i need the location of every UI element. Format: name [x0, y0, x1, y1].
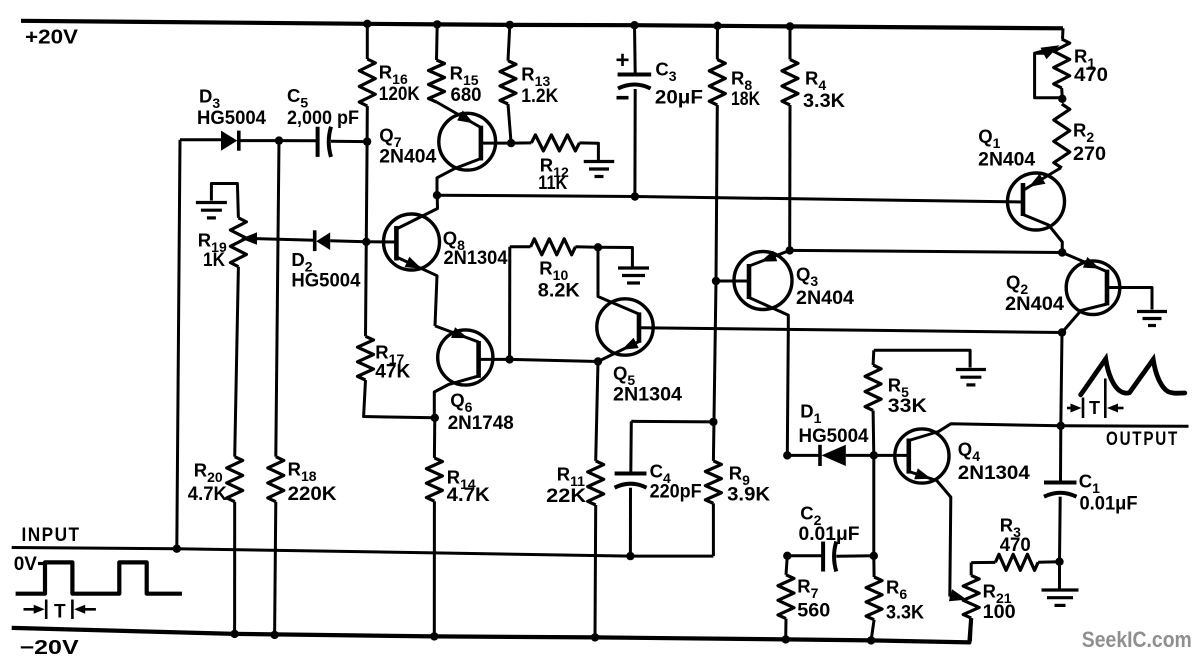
resistor R3 470 — [971, 561, 995, 564]
ground at R12 — [584, 160, 615, 163]
Q7 collector wire — [437, 159, 481, 196]
svg-text:470: 470 — [1074, 65, 1108, 86]
Q6 collector wire from Q8 emitter with arrow — [435, 326, 479, 342]
resistor R20 — [227, 457, 243, 502]
node base-line/Q7 collector — [433, 191, 441, 199]
wire R7 bottom to -20V rail — [784, 619, 787, 640]
node Q3 column/C2 — [783, 552, 791, 560]
wire R13 top — [508, 25, 510, 61]
node R3/C1/ground — [1055, 558, 1063, 566]
node R8/Q3 base — [712, 277, 720, 285]
Q1 collector wire — [1023, 215, 1062, 253]
Q4 wiper arrow into R21 — [950, 597, 956, 599]
+20V supply rail — [21, 21, 1063, 29]
svg-text:4.7K: 4.7K — [447, 485, 490, 506]
Q3 emitter wire with PNP arrow — [751, 250, 790, 265]
R1 wiper arrow — [1035, 50, 1048, 54]
svg-text:100: 100 — [983, 602, 1016, 623]
wire base line: Q7 collector to C3 bottom to Q1 base — [437, 195, 1023, 202]
ground at R5 — [956, 368, 986, 371]
Q5 emitter wire with NPN arrow — [598, 342, 639, 362]
wire R16 top — [366, 24, 369, 59]
svg-text:33K: 33K — [888, 396, 927, 417]
node R11/-20V rail — [591, 633, 599, 641]
wire C5 node down to D2 node and R17 — [366, 142, 368, 337]
node R10/ground/Q5 collector — [594, 243, 602, 251]
node D3 column/input line — [173, 545, 181, 553]
svg-text:2N404: 2N404 — [379, 147, 436, 168]
Q8 emitter wire with NPN arrow — [396, 257, 437, 326]
wire D3 anode column down to input line — [177, 140, 180, 549]
resistor R16 — [359, 59, 375, 106]
capacitor C2 0.01uF — [787, 554, 823, 557]
resistor R7 560 — [786, 556, 787, 575]
wire R18 column — [276, 141, 279, 457]
svg-text:220pF: 220pF — [650, 481, 702, 502]
wire R20 bottom to -20V rail — [233, 502, 236, 634]
ground at C1 — [1042, 588, 1079, 591]
node: rail to R16 — [363, 20, 371, 28]
wire R17 bottom to Q6/R14 node — [364, 380, 435, 418]
wire C3 bottom — [633, 89, 636, 197]
wire R14 bottom to -20V rail — [433, 501, 436, 636]
ground at Q2 base — [1137, 310, 1167, 313]
node Q5 emitter/R11 — [594, 357, 602, 365]
wire R5 top to ground — [874, 350, 970, 367]
svg-text:8.2K: 8.2K — [538, 281, 580, 302]
svg-text:22K: 22K — [546, 486, 586, 507]
output period marker T — [1082, 398, 1085, 419]
node Q2 collector / output column — [1058, 328, 1066, 336]
wire R4 top — [789, 26, 792, 59]
svg-text:2N1748: 2N1748 — [448, 413, 514, 434]
potentiometer R21 100 — [963, 575, 979, 618]
node R18/-20V rail — [270, 631, 278, 639]
svg-text:SeekIC.com: SeekIC.com — [1082, 627, 1192, 652]
transistor Q7 2N404 — [439, 113, 496, 170]
wire R8 bottom to Q3 base node — [716, 105, 717, 281]
transistor Q6 2N1748 — [438, 330, 493, 385]
Q8 base wire from D2 node — [366, 240, 396, 243]
transistor Q4 2N1304 — [895, 429, 949, 483]
node R4/Q3 emitter — [786, 246, 794, 254]
svg-text:T: T — [1089, 398, 1100, 418]
node R20/-20V rail — [230, 630, 238, 638]
node D3/C5/R18 — [275, 136, 283, 144]
resistor R5 33K — [872, 350, 876, 365]
node: rail to R4 — [786, 22, 794, 30]
node C4 top/R9 — [709, 418, 717, 426]
rheostat R1 — [1061, 28, 1065, 39]
wire C1 ground stem — [1058, 562, 1061, 589]
wire R10 node to ground — [598, 247, 632, 266]
svg-text:220K: 220K — [288, 484, 337, 505]
svg-text:2,000 pF: 2,000 pF — [287, 108, 359, 129]
wire R9 top — [713, 281, 716, 461]
wire C3 top — [633, 25, 637, 73]
svg-text:1.2K: 1.2K — [521, 86, 558, 107]
svg-text:0.01μF: 0.01μF — [799, 524, 860, 545]
Q2 emitter arrow (PNP) — [1083, 257, 1100, 269]
Q1 emitter arrow (PNP) — [1029, 174, 1046, 187]
Q7 emitter arrow (PNP) — [457, 111, 474, 124]
resistor R15 — [429, 60, 445, 102]
resistor R2 — [1054, 104, 1070, 168]
R1 wiper loop — [1035, 53, 1063, 97]
Q8 collector wire up to base-line node — [396, 195, 437, 229]
svg-text:4.7K: 4.7K — [188, 484, 227, 505]
Q7 emitter wire from R15 — [437, 102, 481, 128]
wire R8 top — [716, 26, 719, 60]
svg-text:680: 680 — [451, 85, 482, 106]
svg-text:1K: 1K — [203, 250, 225, 271]
Q2 base wire to ground — [1107, 288, 1152, 310]
node base-line/C3 — [631, 192, 639, 200]
svg-text:3.3K: 3.3K — [803, 91, 845, 112]
potentiometer R19 1K — [230, 218, 246, 267]
node D2/Q8 base/R17 column — [362, 238, 370, 246]
svg-text:120K: 120K — [379, 84, 420, 105]
node Q6 base/R10 leg — [505, 355, 513, 363]
resistor R13 — [500, 61, 516, 104]
transistor Q2 2N404 — [1066, 261, 1120, 315]
wire R19 wiper to D2 — [256, 239, 315, 241]
wire R10 left leg — [508, 247, 511, 360]
capacitor C3 — [618, 73, 652, 77]
svg-text:470: 470 — [1000, 535, 1031, 556]
capacitor C4 220pF — [631, 420, 713, 424]
node R1/R2 — [1058, 95, 1066, 103]
INPUT line — [12, 548, 714, 557]
svg-text:+20V: +20V — [25, 27, 79, 49]
node OUTPUT — [1057, 422, 1065, 430]
node Q7 base/R13/R12 — [507, 139, 515, 147]
Q4 collector wire to output line — [909, 424, 1061, 441]
node: rail to C3 — [630, 21, 638, 29]
svg-text:270: 270 — [1073, 144, 1106, 165]
svg-text:18K: 18K — [731, 89, 760, 110]
Q2 collector wire — [1062, 304, 1107, 333]
svg-text:T: T — [54, 602, 66, 623]
transistor Q1 2N404 — [1008, 173, 1065, 230]
node D1/R5/Q4 base — [870, 451, 878, 459]
svg-text:INPUT: INPUT — [22, 525, 81, 546]
input period marker T — [45, 600, 48, 620]
wire R4 bottom to Q3 emitter node — [788, 105, 791, 250]
svg-text:OUTPUT: OUTPUT — [1106, 429, 1179, 450]
wire R6 bottom to -20V rail — [871, 620, 874, 641]
diode D2 HG5004 — [313, 230, 317, 251]
node: rail to R15 — [433, 20, 441, 28]
wire R9 bottom corner to input line — [712, 503, 715, 556]
node R17/Q6/R14 — [431, 414, 439, 422]
svg-text:2N404: 2N404 — [978, 150, 1035, 171]
diode D3 HG5004 — [180, 138, 221, 141]
Q3 collector wire — [749, 298, 788, 456]
svg-text:0V: 0V — [14, 554, 38, 575]
node C5/R16 — [363, 137, 371, 145]
svg-text:47K: 47K — [375, 362, 410, 383]
wire Q5 base line to Q2 collector — [640, 328, 1062, 333]
svg-text:560: 560 — [797, 600, 830, 621]
node: rail to R13 — [506, 21, 514, 29]
resistor R14 — [433, 418, 436, 458]
wire R16 bottom to C5 node — [366, 106, 369, 142]
svg-text:20μF: 20μF — [655, 88, 703, 109]
node C4 bottom/input line — [626, 552, 634, 560]
Q7 base wire — [481, 142, 511, 145]
resistor R6 3.3K — [872, 556, 875, 577]
resistor R4 — [782, 60, 798, 106]
svg-text:2N1304: 2N1304 — [444, 248, 508, 269]
wire Q5 collector — [598, 247, 638, 313]
Q4 emitter wire with NPN arrow — [909, 472, 951, 597]
node R14/-20V rail — [430, 632, 438, 640]
Q2 emitter wire — [1062, 253, 1105, 272]
svg-text:3.3K: 3.3K — [886, 603, 924, 624]
svg-text:11K: 11K — [538, 173, 567, 194]
Q6 emitter wire down to R14 node — [434, 376, 478, 418]
resistor R9 3.9K — [705, 461, 721, 504]
node Q3 collector column / D1 — [783, 451, 791, 459]
-20V supply rail — [12, 618, 972, 642]
diode D1 HG5004 — [787, 454, 820, 457]
svg-text:+: + — [616, 47, 630, 74]
node R6/-20V rail — [867, 636, 875, 644]
resistor R11 22K — [596, 362, 598, 461]
wire R19 bottom to R20 — [235, 267, 239, 457]
sawtooth output waveform — [1081, 359, 1185, 395]
Q1 emitter wire from R2 — [1025, 168, 1061, 190]
wire R13 bottom to Q7 base node — [508, 104, 511, 143]
svg-text:2N404: 2N404 — [796, 288, 854, 309]
svg-text:HG5004: HG5004 — [799, 426, 869, 447]
Q4 base wire — [874, 454, 909, 457]
transistor Q8 2N1304 — [384, 214, 440, 270]
svg-text:HG5004: HG5004 — [291, 271, 360, 292]
transistor Q3 2N404 — [734, 252, 792, 310]
resistor R18 — [268, 457, 284, 502]
svg-text:2N404: 2N404 — [1005, 294, 1064, 315]
resistor R17 — [358, 336, 374, 380]
svg-text:3.9K: 3.9K — [727, 484, 770, 505]
wire Q2 collector down to output node — [1061, 333, 1062, 426]
wire Q6 base line to Q5 emitter node — [510, 359, 598, 361]
svg-text:−20V: −20V — [20, 637, 80, 657]
resistor R8 — [709, 60, 725, 106]
resistor R10 8.2K — [510, 245, 531, 248]
wire R18 bottom to -20V rail — [275, 502, 276, 635]
node C2/R6 — [870, 552, 878, 560]
Q3 base wire — [716, 280, 749, 283]
capacitor C3 polarity - — [617, 96, 629, 100]
R19 wiper arrow — [241, 232, 257, 245]
input square wave — [16, 562, 182, 593]
wire R15 top — [435, 24, 439, 60]
ground at R19 — [196, 201, 227, 204]
node R7/-20V rail — [782, 635, 790, 643]
capacitor C5 2000pF — [279, 139, 318, 142]
wire R11 bottom to -20V rail — [594, 505, 598, 637]
svg-text:2N1304: 2N1304 — [613, 385, 682, 406]
node Q1 collector/Q2 emitter — [1058, 248, 1066, 256]
wire Q3 emitter line to Q2 emitter node — [790, 250, 1062, 252]
svg-text:0.01μF: 0.01μF — [1080, 494, 1138, 515]
resistor R12 11K — [511, 141, 531, 144]
node: rail to R8 — [713, 22, 721, 30]
svg-text:2N1304: 2N1304 — [958, 463, 1030, 484]
Q6 base wire — [479, 358, 510, 361]
wire OUTPUT line — [1061, 424, 1189, 428]
ground at R10 — [618, 266, 649, 269]
wire Q4 node down to C2/R6 — [872, 455, 875, 555]
R19 top wire to ground — [211, 184, 238, 218]
svg-text:HG5004: HG5004 — [197, 108, 266, 129]
transistor Q5 2N1304 — [597, 299, 653, 355]
capacitor C1 0.01uF — [1059, 426, 1062, 481]
